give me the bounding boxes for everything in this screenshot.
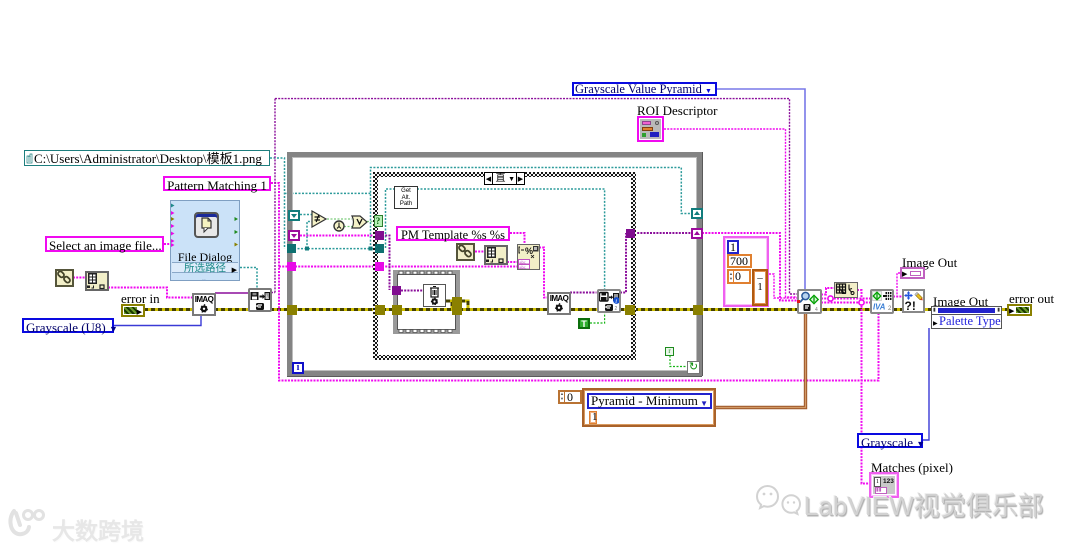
question exclaim icon [902, 289, 925, 313]
sequence structure film border [393, 270, 460, 334]
wire magenta select an image file [164, 243, 172, 245]
label error in [121, 292, 160, 305]
wire error line main [144, 308, 1009, 311]
tunnel olive seq right upper [452, 297, 462, 306]
wire error stub sequence upper tunnel [461, 301, 468, 309]
numeric 0 spin [727, 269, 751, 284]
shift register right magenta [691, 228, 703, 239]
label Select an image file [45, 236, 164, 252]
wire teal file dialog to readfile [240, 268, 257, 290]
wire magenta into case to format string [295, 266, 517, 268]
image out terminal 1 [900, 267, 925, 279]
path constant C:\Users [24, 150, 270, 166]
boolean true constant [578, 318, 590, 329]
wire pink ROI descriptor to match [664, 129, 797, 297]
wire green T to write [590, 313, 605, 323]
File Dialog express VI [170, 200, 240, 281]
tunnel olive case right [625, 305, 635, 315]
svg-text:abc: abc [520, 265, 526, 270]
not equal node [311, 210, 328, 228]
array -1 [752, 269, 768, 306]
wire purple template to dispose [382, 236, 423, 291]
tunnel teal loop [287, 244, 296, 253]
wire green loop condition [670, 356, 687, 367]
wire magenta IVA to exclaim [893, 296, 902, 298]
tunnel purple seq left [392, 286, 401, 295]
wire green booleans compare to case selector [327, 219, 374, 227]
numeric 0 spin constant [558, 390, 582, 404]
tunnel purple case left [375, 231, 384, 240]
tunnel olive seq right [452, 305, 462, 315]
ring Grayscale [857, 433, 923, 448]
svg-text:?!: ?! [905, 299, 916, 311]
cluster constant with 1 700 0 -1 [723, 236, 769, 307]
case selector label [484, 172, 525, 185]
error in terminal [121, 304, 145, 317]
junction dot match learn [828, 296, 833, 301]
wire purple IMAQ create to readfile [215, 292, 248, 294]
chain icon 2 [456, 243, 475, 261]
wire magenta pattern matching label down and under loop [271, 183, 862, 381]
wire purple top long image wire [271, 99, 797, 294]
IMAQ readfile [248, 288, 272, 312]
wire magenta PM template label to format [510, 233, 525, 244]
svg-text:IVA: IVA [873, 302, 886, 311]
wire magenta format to IMAQ create 2 [539, 248, 547, 298]
wire teal inside case to Get Alt Path and write [382, 189, 605, 290]
IMAQ match pattern icon [797, 289, 822, 314]
tunnel magenta loop [287, 262, 296, 271]
wire purple write out to shift register right [620, 233, 691, 293]
pyramid minimum combo cluster [582, 388, 716, 427]
label Image Out 2 [933, 295, 988, 308]
combo Grayscale Value Pyramid [572, 82, 717, 96]
loop condition terminal [687, 361, 700, 374]
format into string icon [517, 244, 540, 270]
wire magenta array to IMAQ create [108, 288, 192, 298]
while loop [287, 152, 702, 376]
chain icon 1 [55, 269, 74, 287]
or gate node [351, 215, 368, 229]
wire blue palette type to grayscale ring [923, 328, 929, 440]
junction dot matches [859, 300, 864, 305]
case structure [373, 172, 636, 360]
svg-text:2: 2 [614, 306, 617, 311]
round empty-path node [333, 220, 345, 232]
Get Alt Path subVI [394, 186, 418, 209]
svg-text:%: % [525, 246, 533, 256]
array index icon 2 [484, 245, 508, 265]
watermark dashu text [52, 512, 144, 546]
shift register right teal [691, 208, 703, 219]
shift register left magenta [288, 230, 300, 241]
wire teal shift register to not-equal [300, 214, 312, 216]
label error out [1009, 292, 1054, 305]
watermark dashu logo [6, 505, 52, 543]
label ROI Descriptor [637, 104, 718, 117]
wire purple IMAQ create2 to write [570, 292, 597, 294]
label Image Out 1 [902, 256, 957, 269]
IVA icon [870, 289, 894, 314]
watermark labview text [804, 486, 1044, 523]
wire blue grayscale value pyramid to match [717, 89, 805, 289]
learn pattern grid icon [834, 282, 858, 298]
small boolean constant near condition [665, 347, 674, 356]
svg-text:4: 4 [815, 307, 818, 312]
junction dot teal compare [305, 247, 309, 251]
svg-text:2: 2 [888, 306, 892, 312]
wire blue grayscale u8 to IMAQ create [114, 315, 201, 326]
tunnel magenta case left [375, 262, 384, 271]
wire magenta shift register template to case tunnel [300, 235, 375, 237]
wire error inside sequence [393, 270, 460, 334]
wire magenta cluster to match [769, 274, 797, 298]
wire teal inside loop to compare and case [287, 168, 691, 249]
tunnel green question case [374, 215, 383, 227]
wire brown cluster combo to match [716, 313, 806, 408]
tunnel olive seq left [392, 305, 402, 315]
IMAQ create 2 [547, 292, 571, 315]
image display terminal [931, 306, 1002, 315]
wire magenta bundle match to IVA [821, 299, 870, 303]
wire magenta matches down to indicator [862, 303, 870, 484]
shift register left teal [288, 210, 300, 221]
numeric 1 blue [727, 240, 739, 254]
tunnel purple case right [626, 229, 635, 238]
wire magenta image out terminal [897, 273, 900, 295]
loop iteration terminal i [292, 362, 304, 374]
label Pattern Matching 1 [163, 176, 271, 191]
label PM Template [396, 226, 510, 241]
tunnel olive loop right [693, 305, 703, 315]
wire magenta IVA down to under loop line [862, 313, 879, 381]
wire magenta chain to array [73, 277, 85, 279]
wire magenta match to learn icon loop [821, 288, 862, 299]
IMAQ dispose icon [423, 284, 446, 307]
wire teal path constant to loop tunnel [270, 158, 371, 249]
array index icon 1 [85, 271, 109, 291]
IMAQ write file icon [597, 289, 621, 313]
wire magenta template image out of loop to match [702, 233, 797, 301]
IMAQ create 1 [192, 293, 216, 316]
tunnel teal case left [375, 244, 384, 253]
numeric 700 [727, 254, 752, 268]
svg-text:i: i [615, 298, 617, 305]
matches array indicator [869, 472, 899, 498]
tunnel olive loop left [287, 305, 297, 315]
palette type box [931, 314, 1002, 329]
tunnel olive case left [375, 305, 385, 315]
label Matches (pixel) [871, 461, 953, 474]
enum Grayscale U8 [22, 318, 114, 333]
error out terminal [1007, 304, 1032, 316]
wire magenta chain2 array2 format [475, 252, 517, 263]
ROI descriptor cluster constant [637, 116, 664, 142]
watermark wechat logo [756, 482, 806, 518]
